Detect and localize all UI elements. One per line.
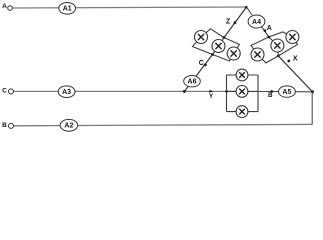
svg-text:A5: A5 — [282, 89, 291, 96]
wire: middle rail — [227, 90, 259, 92]
wire: ammeter A4 to right lamp-bank top node — [262, 27, 269, 37]
wire: right bus — [257, 75, 259, 112]
wire: left bus — [226, 75, 228, 112]
wire: middle lamp leads — [213, 38, 225, 55]
wire: diagonal from apex to node Z to left lamp-bank top — [224, 7, 247, 38]
wire: T to TL corner and lamp R3 — [251, 37, 269, 55]
ammeter A1 — [59, 3, 76, 15]
node right corner junction — [311, 90, 314, 93]
wire: middle lamp leads — [269, 37, 279, 56]
lamp L2 (left bank middle) — [212, 40, 225, 53]
lamp V2 (vertical bank middle) — [236, 86, 248, 98]
wire: lamp3 bottom to BR corner to B node — [213, 54, 234, 62]
terminal C (open circle) — [9, 89, 14, 94]
node C dot — [204, 64, 207, 67]
node T right bank junction — [267, 36, 270, 39]
node B left bank junction — [211, 53, 214, 56]
ammeter A2 — [60, 119, 78, 131]
wire: T to TR corner and lamp R1 — [269, 32, 293, 37]
node A dot — [264, 29, 267, 32]
lamp V1 (vertical bank top) — [236, 69, 248, 81]
svg-text:A4: A4 — [252, 19, 261, 26]
wire: bottom rail — [227, 111, 259, 113]
wire: lamp R1 bottom to right corner to B node — [278, 37, 297, 56]
node X dot — [287, 60, 290, 63]
node B right bank junction — [277, 55, 280, 58]
wire: left bank B node diagonal through C to ammeter A6 and C line — [184, 55, 212, 92]
wire: right vertical down to B line — [311, 92, 313, 125]
svg-text:A2: A2 — [64, 123, 73, 130]
svg-text:Y: Y — [209, 93, 214, 100]
node junction A6 line meets C wire — [183, 90, 186, 93]
ammeter A5 — [279, 86, 296, 97]
left lamp bank loop wires — [193, 29, 240, 61]
node left bus crossing dot — [225, 90, 228, 93]
lamp L3 (left bank lower-right) — [227, 47, 240, 60]
wire: lamp R3 bottom to BL corner to B node — [258, 55, 279, 63]
ammeter A6 — [184, 76, 201, 87]
wire: right bus to A5 — [258, 91, 279, 93]
right lamp bank loop wires — [251, 32, 298, 63]
svg-text:A3: A3 — [62, 89, 71, 96]
wire: phase A horizontal line — [13, 7, 247, 8]
lamp V3 (vertical bank bottom) — [236, 106, 248, 118]
svg-text:A6: A6 — [188, 79, 197, 86]
node B dot on wire — [270, 90, 273, 93]
wire: phase C horizontal line — [14, 90, 237, 92]
svg-text:A1: A1 — [63, 6, 72, 13]
wire: top edge T to TL corner — [201, 29, 224, 38]
ammeter A4 — [248, 15, 265, 28]
wire: apex to ammeter A4 — [247, 7, 253, 15]
svg-text:C: C — [2, 88, 7, 95]
svg-text:B: B — [268, 92, 273, 99]
wire: phase B horizontal line — [14, 124, 313, 125]
lamp bank vertical: rails — [227, 75, 259, 112]
svg-text:Z: Z — [226, 18, 231, 25]
terminal A (open circle) — [8, 6, 13, 11]
node Z dot — [234, 21, 237, 24]
svg-text:A: A — [2, 3, 7, 10]
node apex junction — [245, 6, 248, 9]
svg-text:C: C — [199, 60, 204, 67]
node T left bank junction — [223, 36, 226, 39]
svg-text:X: X — [293, 55, 298, 62]
terminal B (open circle) — [9, 123, 14, 128]
lamp R3 (right bank lower-left) — [251, 48, 264, 61]
lamp R1 (right bank upper-right) — [286, 31, 299, 44]
wire: left branch bottom BL corner — [193, 37, 213, 55]
wire: right bank B node diagonal to A5 junction (node X line) — [278, 56, 312, 92]
svg-text:A: A — [267, 25, 272, 32]
wire: top rail — [227, 74, 259, 76]
node Y arrow on C wire — [209, 90, 213, 93]
ammeter A3 — [58, 86, 75, 98]
svg-text:B: B — [2, 122, 7, 129]
wire: A5 to right corner junction — [295, 91, 312, 93]
wire: top edge T to TR corner and lamp3 — [224, 38, 240, 54]
lamp R2 (right bank middle) — [271, 39, 284, 52]
lamp L1 (left bank upper-left) — [195, 31, 208, 44]
